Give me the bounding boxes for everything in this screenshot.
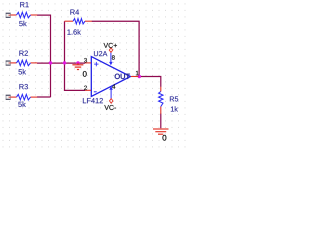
V+ power bubble [109, 48, 112, 53]
label R5 [170, 96, 178, 101]
value 5k [18, 102, 26, 107]
pin number 2 [84, 86, 87, 90]
wire output to R5 top [138, 77, 161, 87]
junction dot A (bus A / pin3 wire) [49, 61, 52, 64]
resistor R5 pins (vertical) [160, 87, 162, 114]
resistor R4 zigzag [73, 19, 85, 24]
ground G2 under R5 [153, 129, 169, 134]
port P2 [6, 61, 11, 66]
wire R2 out to op-amp pin3 [37, 62, 85, 64]
junction dot B (bus B / pin3 wire) [63, 61, 66, 64]
resistor R5 zigzag [159, 92, 163, 107]
label U2A [94, 51, 107, 56]
wire R3 out [37, 96, 51, 98]
label R1 [20, 2, 28, 7]
label R2 [19, 51, 27, 56]
resistor R4 pins [65, 20, 92, 22]
wire R1 out: horizontal then down bus A [37, 15, 51, 97]
port P3 [6, 95, 11, 100]
value 1k [171, 106, 178, 111]
junction dot C (ground tap) [76, 61, 79, 64]
op-amp minus mark [94, 91, 97, 93]
wire R4 right to feedback vertical [92, 21, 140, 76]
label LF412 [83, 98, 103, 103]
V- name VC- [104, 105, 116, 110]
wire R4 bus down to pin2 [65, 21, 86, 90]
op-amp plus mark [94, 62, 98, 66]
op-amp pin2 stub [85, 89, 91, 91]
V+ pin with arrow [110, 52, 112, 62]
resistor R3 pins [10, 96, 37, 98]
pin number 1 [136, 71, 139, 75]
net label OUT [115, 74, 130, 79]
ground G1 on pin3 wire [72, 63, 83, 70]
ground G2 net name 0 [163, 135, 167, 141]
value 5k [18, 69, 26, 74]
pin number 4 [112, 84, 115, 88]
op-amp output stub pin1 [131, 76, 139, 78]
resistor R2 pins [10, 62, 37, 64]
label R4 [70, 10, 79, 15]
ground G1 net name 0 [83, 71, 87, 77]
V- power bubble [110, 99, 113, 104]
resistor R1 pins (red stubs) [10, 14, 37, 16]
V- pin with arrow [110, 90, 112, 99]
resistor R2 zigzag [17, 60, 31, 65]
value 1.6k [67, 29, 80, 34]
junction dot D (output/feedback) [138, 75, 141, 78]
port P1 [6, 13, 11, 18]
pin number 8 [112, 55, 115, 59]
pin number 3 [84, 58, 87, 62]
grid dots [0, 0, 186, 152]
wire R5 bottom to ground [160, 114, 162, 129]
resistor R1 zigzag [17, 12, 31, 17]
op-amp U2A triangle [91, 57, 130, 97]
value 5k [19, 21, 27, 26]
label R3 [19, 84, 28, 89]
op-amp pin3 stub [85, 62, 91, 64]
resistor R3 zigzag [17, 94, 31, 100]
V+ name VC+ [104, 43, 117, 48]
